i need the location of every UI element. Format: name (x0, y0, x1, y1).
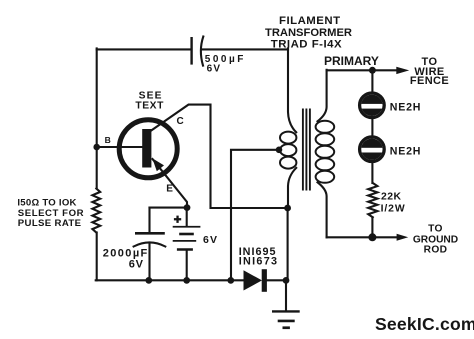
wire bottom rail right (diode cathode to ground node) (266, 279, 286, 281)
transistor Q1 base bar (142, 129, 151, 168)
svg-text:TRIAD F-I4X: TRIAD F-I4X (271, 38, 342, 50)
wire top rail left segment (97, 48, 191, 50)
capacitor C1 500uF curved plate (201, 37, 203, 66)
svg-text:ROD: ROD (424, 245, 448, 256)
wire base (97, 146, 142, 148)
svg-text:NE2H: NE2H (390, 102, 421, 114)
battery B1 plate 2 short thick (179, 233, 194, 236)
node C2 bottom dot (145, 277, 152, 284)
node battery bottom dot (183, 277, 190, 284)
node emitter junction dot (184, 204, 191, 211)
transformer T1 left feed bottom (288, 168, 296, 208)
node ground junction dot (283, 277, 290, 284)
svg-text:E: E (166, 184, 173, 195)
transistor Q1 circle (119, 120, 177, 178)
diode D1 triangle (244, 270, 263, 290)
svg-text:6V: 6V (129, 258, 144, 270)
transformer T1 right winding loops (316, 121, 335, 133)
wire bottom rail left (to diode anode) (96, 279, 244, 281)
node fence wire dot (369, 67, 376, 74)
capacitor C2 2000uF top stem (148, 208, 150, 232)
transformer T1 left feed top (288, 48, 296, 132)
svg-text:PULSE RATE: PULSE RATE (18, 218, 82, 229)
wire ground stem (285, 280, 287, 310)
arrow to ground rod (397, 234, 409, 241)
wire between lamps (371, 118, 373, 138)
wire left rail lower (96, 233, 98, 281)
neon lamp NE2H no.2 (360, 137, 385, 162)
capacitor C1 500uF left plate (190, 37, 192, 65)
svg-text:I/2W: I/2W (381, 203, 406, 214)
svg-text:NE2H: NE2H (390, 145, 421, 157)
svg-text:B: B (105, 135, 111, 145)
battery B1 plate 3 long (173, 240, 197, 242)
wire emitter to C2 (150, 207, 188, 209)
svg-text:SeekIC.com: SeekIC.com (375, 314, 474, 334)
wire ground rod horizontal (327, 236, 397, 238)
svg-text:FILAMENT: FILAMENT (279, 15, 341, 27)
wire left rail upper (96, 48, 98, 188)
wire transformer bottom to ground node (287, 208, 289, 280)
battery B1 bottom stem (186, 251, 188, 280)
transistor Q1 collector lead (151, 105, 287, 208)
node tap dot on transformer (276, 147, 283, 154)
wire tap from transformer to diode node (231, 150, 279, 280)
svg-text:TEXT: TEXT (135, 101, 164, 112)
transistor Q1 emitter lead (153, 159, 188, 208)
svg-text:22K: 22K (381, 192, 402, 203)
arrow to wire fence (396, 67, 409, 74)
capacitor C2 2000uF top plate (135, 232, 165, 235)
capacitor C2 2000uF curved plate (134, 242, 166, 246)
battery B1 top stem (186, 208, 188, 226)
node ground rod dot (368, 233, 376, 241)
resistor R1 pulse-rate zigzag (92, 189, 100, 233)
neon lamp NE2H no.1 (360, 93, 385, 118)
svg-text:FENCE: FENCE (410, 75, 449, 87)
ground symbol bars (272, 310, 300, 312)
wire top rail right segment (202, 48, 288, 50)
transistor Q1 emitter arrow (152, 158, 164, 171)
svg-text:TRANSFORMER: TRANSFORMER (265, 27, 352, 39)
capacitor C2 bottom stem (148, 243, 150, 281)
svg-text:6V: 6V (207, 64, 222, 75)
svg-text:6V: 6V (203, 234, 218, 246)
svg-text:TO: TO (428, 223, 443, 234)
wire primary top to fence arrow (327, 69, 396, 71)
node diode anode dot (227, 277, 234, 284)
svg-text:PRIMARY: PRIMARY (324, 54, 379, 68)
svg-text:INI673: INI673 (239, 255, 279, 267)
wire lamp2 to resistor (371, 161, 373, 183)
wire lamp chain top (371, 70, 373, 93)
battery B1 plate 1 long (173, 226, 201, 228)
battery B1 plus sign (174, 218, 181, 220)
transformer T1 core lines (302, 109, 304, 191)
wire resistor bottom (371, 217, 373, 237)
diode D1 cathode bar (262, 269, 267, 292)
transformer T1 left winding loops (280, 132, 296, 144)
transformer T1 right feed top (318, 70, 327, 122)
battery B1 plate 4 short thick (177, 248, 193, 251)
svg-text:C: C (177, 116, 184, 127)
node base wire dot (93, 144, 100, 151)
resistor R2 22K zigzag (368, 183, 377, 217)
node transformer left bottom dot (284, 205, 291, 212)
transformer T1 right feed bottom (318, 182, 327, 237)
